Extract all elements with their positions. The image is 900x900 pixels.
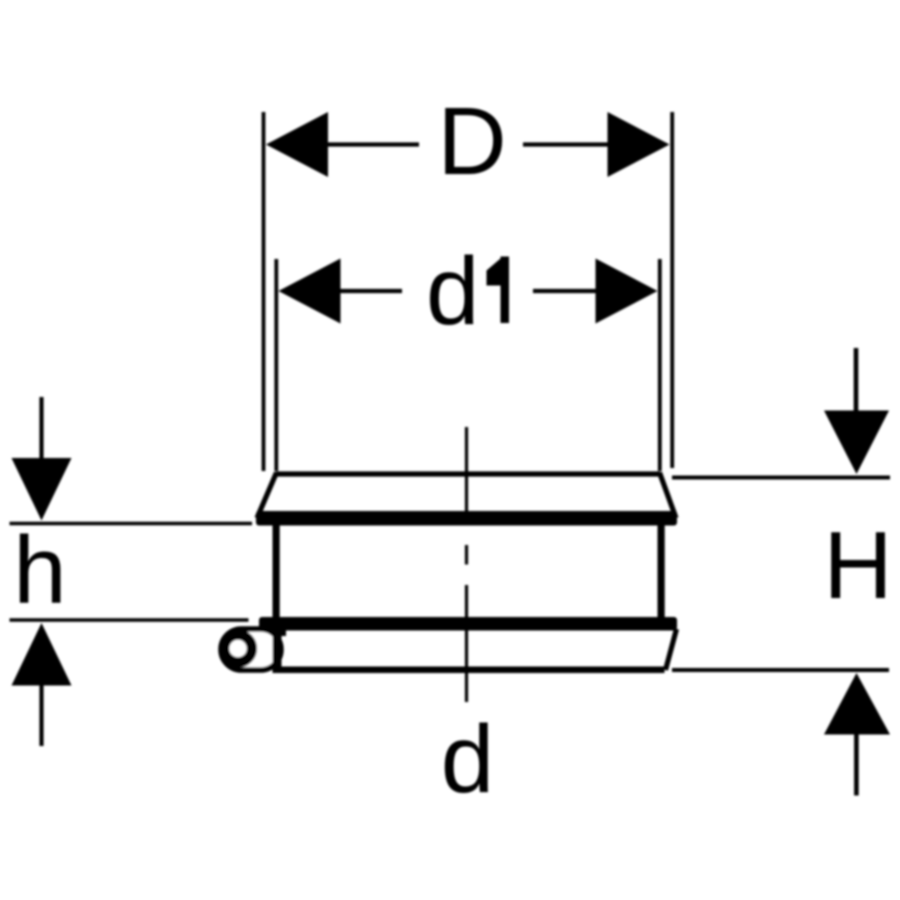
extension line D right <box>670 112 674 468</box>
center line (vertical dashed axis) <box>465 427 468 702</box>
body: upper clamp band <box>256 511 677 526</box>
h dimension top line <box>10 522 253 526</box>
extension line d1 left <box>274 259 278 471</box>
lug right closure bar <box>273 629 282 673</box>
h down arrowhead <box>12 458 72 521</box>
latch lug (nub) on lower left <box>221 629 281 670</box>
body: lower-left corner fill <box>262 617 286 636</box>
dimension line D <box>326 142 609 146</box>
body: lower clamp band <box>259 617 677 631</box>
body: bottom edge of lower flange <box>276 667 665 674</box>
h down-arrow stem <box>39 397 43 460</box>
svg-text:d: d <box>441 706 494 813</box>
H down arrowhead <box>824 411 889 475</box>
H up-arrow stem <box>854 733 859 796</box>
h up-arrow stem <box>39 684 43 746</box>
lug eyelet ring <box>224 635 252 663</box>
svg-text:d: d <box>426 238 479 345</box>
svg-text:h: h <box>13 517 66 624</box>
body: upper flange left slant <box>257 473 277 519</box>
extension line D left <box>262 112 266 471</box>
arrowhead d1 right <box>596 259 658 324</box>
H bottom leader line <box>672 668 889 672</box>
body: upper flange right slant <box>660 473 677 519</box>
H down-arrow stem <box>854 348 859 412</box>
H up arrowhead <box>824 673 890 735</box>
H top leader line <box>672 476 890 480</box>
h up arrowhead <box>12 623 72 686</box>
extension line d1 right <box>658 259 662 471</box>
arrowhead d1 left <box>279 259 341 324</box>
label d1: digit 1 <box>487 257 510 324</box>
body: lower flange right slant <box>666 629 677 670</box>
body: top edge of upper flange <box>276 471 660 476</box>
svg-text:H: H <box>823 512 892 619</box>
body: left wall <box>273 520 280 636</box>
h dimension bottom line <box>10 618 249 622</box>
arrowhead D left <box>266 112 328 177</box>
body: right wall <box>658 520 665 622</box>
svg-text:D: D <box>437 88 506 195</box>
arrowhead D right <box>608 112 670 177</box>
dimension line d1 <box>338 289 597 293</box>
